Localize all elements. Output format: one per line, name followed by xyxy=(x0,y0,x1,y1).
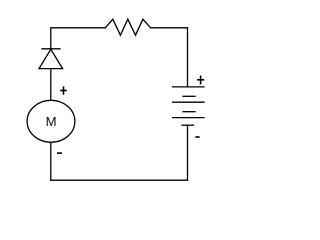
svg-text:M: M xyxy=(46,114,57,129)
wire: bottom side xyxy=(51,179,188,181)
motor M xyxy=(27,100,75,142)
wire: motor top up to diode anode xyxy=(50,69,52,101)
diode xyxy=(39,49,63,69)
battery xyxy=(173,87,204,125)
wire: top-right corner (resistor right lead down to battery + plate) xyxy=(151,28,188,87)
label: motor - polarity xyxy=(57,152,62,154)
wire: bottom-left corner up to motor bottom xyxy=(50,142,52,180)
label: battery - polarity xyxy=(195,136,199,138)
wire: battery - plate down to bottom-right corner xyxy=(187,125,189,180)
label: motor + polarity xyxy=(60,86,67,94)
label: battery + polarity xyxy=(197,76,204,85)
resistor xyxy=(105,19,150,35)
wire: top-left corner (diode cathode up to resistor left lead) xyxy=(51,28,106,49)
